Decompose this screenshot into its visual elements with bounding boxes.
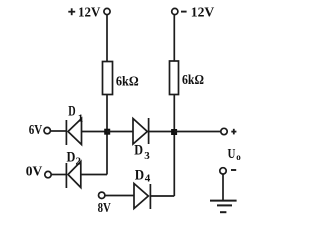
label output minus sign (231, 169, 236, 171)
node B (171, 129, 177, 135)
wire R2 to node B (173, 95, 175, 132)
label output plus sign (231, 129, 236, 135)
svg-text:4: 4 (145, 172, 151, 184)
wire D4 to right rail (150, 195, 174, 197)
terminal output plus (221, 128, 227, 134)
wire minus terminal to ground (222, 174, 224, 200)
svg-text:D: D (134, 143, 143, 159)
terminal output minus (220, 168, 226, 174)
wire D2 to left rail (81, 174, 107, 176)
svg-text:1: 1 (78, 113, 84, 125)
svg-text:D: D (67, 149, 76, 165)
terminal 6V (44, 127, 50, 133)
wire 6V to D1 (51, 130, 67, 132)
resistor R2 (170, 61, 179, 95)
wire 8V to D4 (105, 195, 134, 197)
terminal +12V (104, 8, 110, 14)
wire node B to output terminal (174, 131, 221, 133)
diode D4 (134, 184, 150, 210)
wire node A down to D2 corner (106, 132, 108, 175)
svg-text:3: 3 (144, 150, 150, 162)
svg-text:2: 2 (76, 155, 82, 167)
diode D2 (66, 162, 80, 189)
svg-text:o: o (236, 152, 241, 162)
svg-text:U: U (228, 146, 236, 161)
terminal 8V (99, 192, 105, 198)
wire D1 to node A (82, 131, 108, 133)
label -12V minus sign (181, 11, 187, 13)
diode D1 (66, 119, 81, 146)
svg-text:12V: 12V (78, 6, 100, 21)
svg-text:12V: 12V (191, 6, 215, 21)
wire node A to D3 (107, 131, 133, 133)
wire node B down to D4 corner (173, 132, 175, 197)
node A (104, 129, 110, 135)
wire +12V to R1 (106, 15, 108, 62)
svg-text:D: D (68, 104, 75, 120)
terminal 0V (45, 171, 51, 177)
wire -12V to R2 (173, 15, 175, 61)
svg-text:6kΩ: 6kΩ (182, 73, 204, 88)
label +12V plus sign (68, 8, 75, 15)
svg-text:D: D (135, 167, 144, 183)
terminal -12V (172, 8, 178, 14)
svg-text:6V: 6V (29, 122, 43, 137)
diode D3 (133, 118, 149, 144)
svg-text:8V: 8V (98, 200, 111, 215)
ground (210, 201, 237, 213)
resistor R1 (103, 62, 113, 95)
svg-text:6kΩ: 6kΩ (116, 75, 139, 90)
wire D3 to node B (149, 131, 175, 133)
wire 0V to D2 (51, 174, 66, 176)
svg-text:0V: 0V (26, 164, 43, 179)
wire R1 to node A (106, 95, 108, 132)
